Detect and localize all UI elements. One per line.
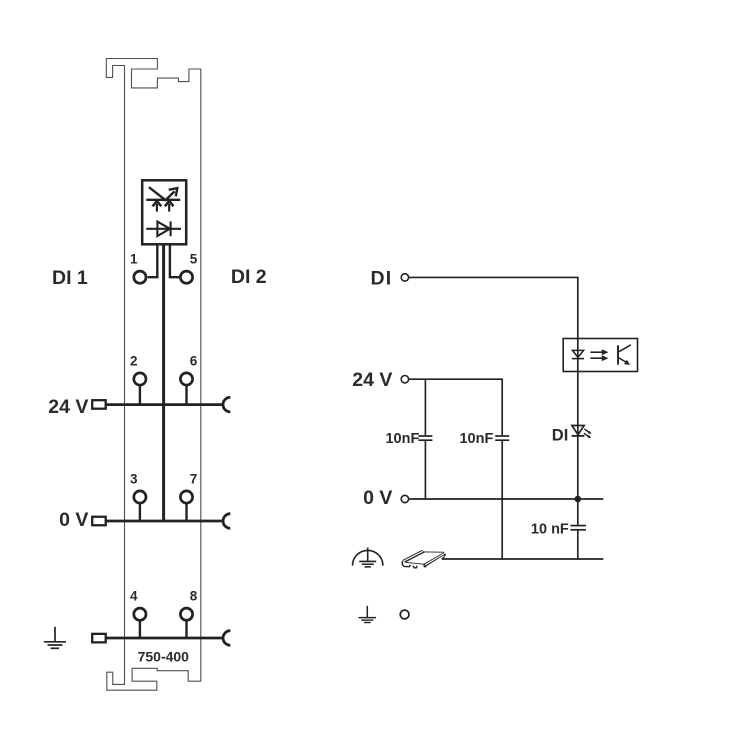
- DIN rail symbol: [402, 550, 446, 568]
- svg-text:DI 1: DI 1: [52, 267, 88, 289]
- diode D1 triangle: [157, 222, 170, 236]
- pin 2: [134, 373, 146, 385]
- stub pin6: [185, 386, 187, 404]
- optocoupler U2 box: [563, 339, 637, 372]
- svg-text:10 nF: 10 nF: [531, 521, 569, 537]
- LED DI triangle: [572, 426, 584, 435]
- pin 7: [180, 491, 192, 503]
- wire cap1 lower: [424, 441, 426, 500]
- LED up arrow 2: [168, 204, 170, 212]
- optocoupler arrow 2: [590, 357, 602, 359]
- rail front notch: [413, 566, 417, 568]
- pin 1: [134, 271, 146, 283]
- wire center bus: [162, 246, 165, 522]
- pin 6: [180, 373, 192, 385]
- stub pin4: [139, 621, 141, 637]
- optocoupler LED cathode: [572, 358, 584, 360]
- stub pin8: [185, 621, 187, 637]
- noiseless earth stem: [367, 548, 369, 562]
- LED box U1: [142, 180, 186, 244]
- pin 8: [180, 608, 192, 620]
- wire DI horizontal: [409, 276, 578, 278]
- noiseless earth bars: [359, 560, 376, 562]
- svg-text:DI 2: DI 2: [231, 266, 267, 288]
- svg-text:2: 2: [130, 353, 138, 368]
- rail right flange white stripe: [425, 553, 445, 565]
- svg-text:10nF: 10nF: [385, 431, 419, 447]
- wire pin5 to box: [170, 246, 180, 278]
- 24V rail wire: [106, 403, 222, 406]
- wire 0V horizontal: [409, 498, 603, 500]
- svg-text:24 V: 24 V: [352, 369, 392, 391]
- earth flag terminal: [92, 634, 106, 643]
- indicator arrow shaft: [166, 191, 175, 199]
- terminal DI: [401, 274, 408, 281]
- earth rail wire: [106, 637, 222, 640]
- rail right flange front face: [424, 564, 426, 567]
- indicator arrowhead: [169, 188, 178, 196]
- wire pin1 to box: [148, 246, 158, 278]
- 0V rail wire: [106, 520, 222, 523]
- wire cap2 upper: [501, 379, 503, 435]
- wire cap2 lower: [501, 441, 503, 560]
- stub pin2: [139, 386, 141, 404]
- svg-text:8: 8: [190, 588, 198, 603]
- pin 4: [134, 608, 146, 620]
- rail right flange: [424, 552, 446, 566]
- pin 3: [134, 491, 146, 503]
- clamp 0V: [223, 514, 230, 529]
- 24V flag terminal: [92, 400, 106, 409]
- wire cap1 upper: [424, 379, 426, 435]
- phototransistor collector: [619, 345, 631, 352]
- svg-text:750-400: 750-400: [138, 649, 190, 665]
- indicator bar: [146, 199, 180, 201]
- optocoupler LED triangle: [572, 350, 583, 357]
- rail left flange white top stripe: [403, 551, 423, 562]
- clamp 24V: [223, 397, 230, 412]
- diode D1 line: [146, 228, 181, 230]
- svg-text:DI: DI: [552, 427, 569, 445]
- svg-text:4: 4: [130, 588, 138, 603]
- wire 24V horizontal: [409, 378, 503, 380]
- svg-text:24 V: 24 V: [48, 396, 88, 418]
- pin 5: [180, 271, 192, 283]
- svg-text:6: 6: [190, 353, 198, 368]
- rail front profile: [402, 561, 410, 566]
- terminal 24V: [401, 376, 408, 383]
- terminal 0V: [401, 495, 408, 502]
- optocoupler arrow 1: [590, 351, 602, 353]
- wire DI vertical upper: [577, 277, 579, 525]
- terminal earth circle: [400, 610, 409, 619]
- junction node: [575, 496, 582, 503]
- noiseless earth arc: [353, 550, 383, 565]
- earth symbol bottom: [366, 606, 368, 618]
- module outline 750-400 body: [106, 59, 201, 691]
- svg-text:7: 7: [190, 471, 198, 486]
- stub pin7: [185, 504, 187, 520]
- LED DI cathode: [572, 435, 585, 437]
- clamp earth: [223, 631, 230, 646]
- stub pin3: [139, 504, 141, 520]
- svg-text:3: 3: [130, 471, 138, 486]
- svg-text:5: 5: [190, 251, 198, 266]
- svg-text:1: 1: [130, 251, 138, 266]
- svg-text:DI: DI: [370, 267, 392, 289]
- phototransistor emitter: [619, 358, 627, 363]
- capacitor C2 plates: [495, 435, 509, 437]
- svg-text:0 V: 0 V: [59, 509, 88, 531]
- rail web edges: [405, 552, 444, 562]
- 0V flag terminal: [92, 517, 106, 526]
- LED DI emission arrow 1: [584, 429, 589, 433]
- LED up arrow 1: [156, 204, 158, 212]
- capacitor C3 plates: [570, 525, 586, 527]
- indicator incoming diagonal: [149, 187, 166, 201]
- LED DI emission arrow 2: [584, 433, 589, 437]
- rail far tip to wire: [442, 554, 446, 559]
- rail left flange outer wall: [402, 550, 425, 562]
- phototransistor base bar: [617, 345, 619, 364]
- ground symbol module: [54, 627, 56, 642]
- diode D1 cathode bar: [170, 221, 172, 236]
- svg-text:0 V: 0 V: [363, 487, 392, 509]
- svg-text:10nF: 10nF: [459, 431, 493, 447]
- capacitor C1 plates: [418, 435, 432, 437]
- wire DI vertical lower: [577, 531, 579, 560]
- shield wire: [442, 558, 604, 560]
